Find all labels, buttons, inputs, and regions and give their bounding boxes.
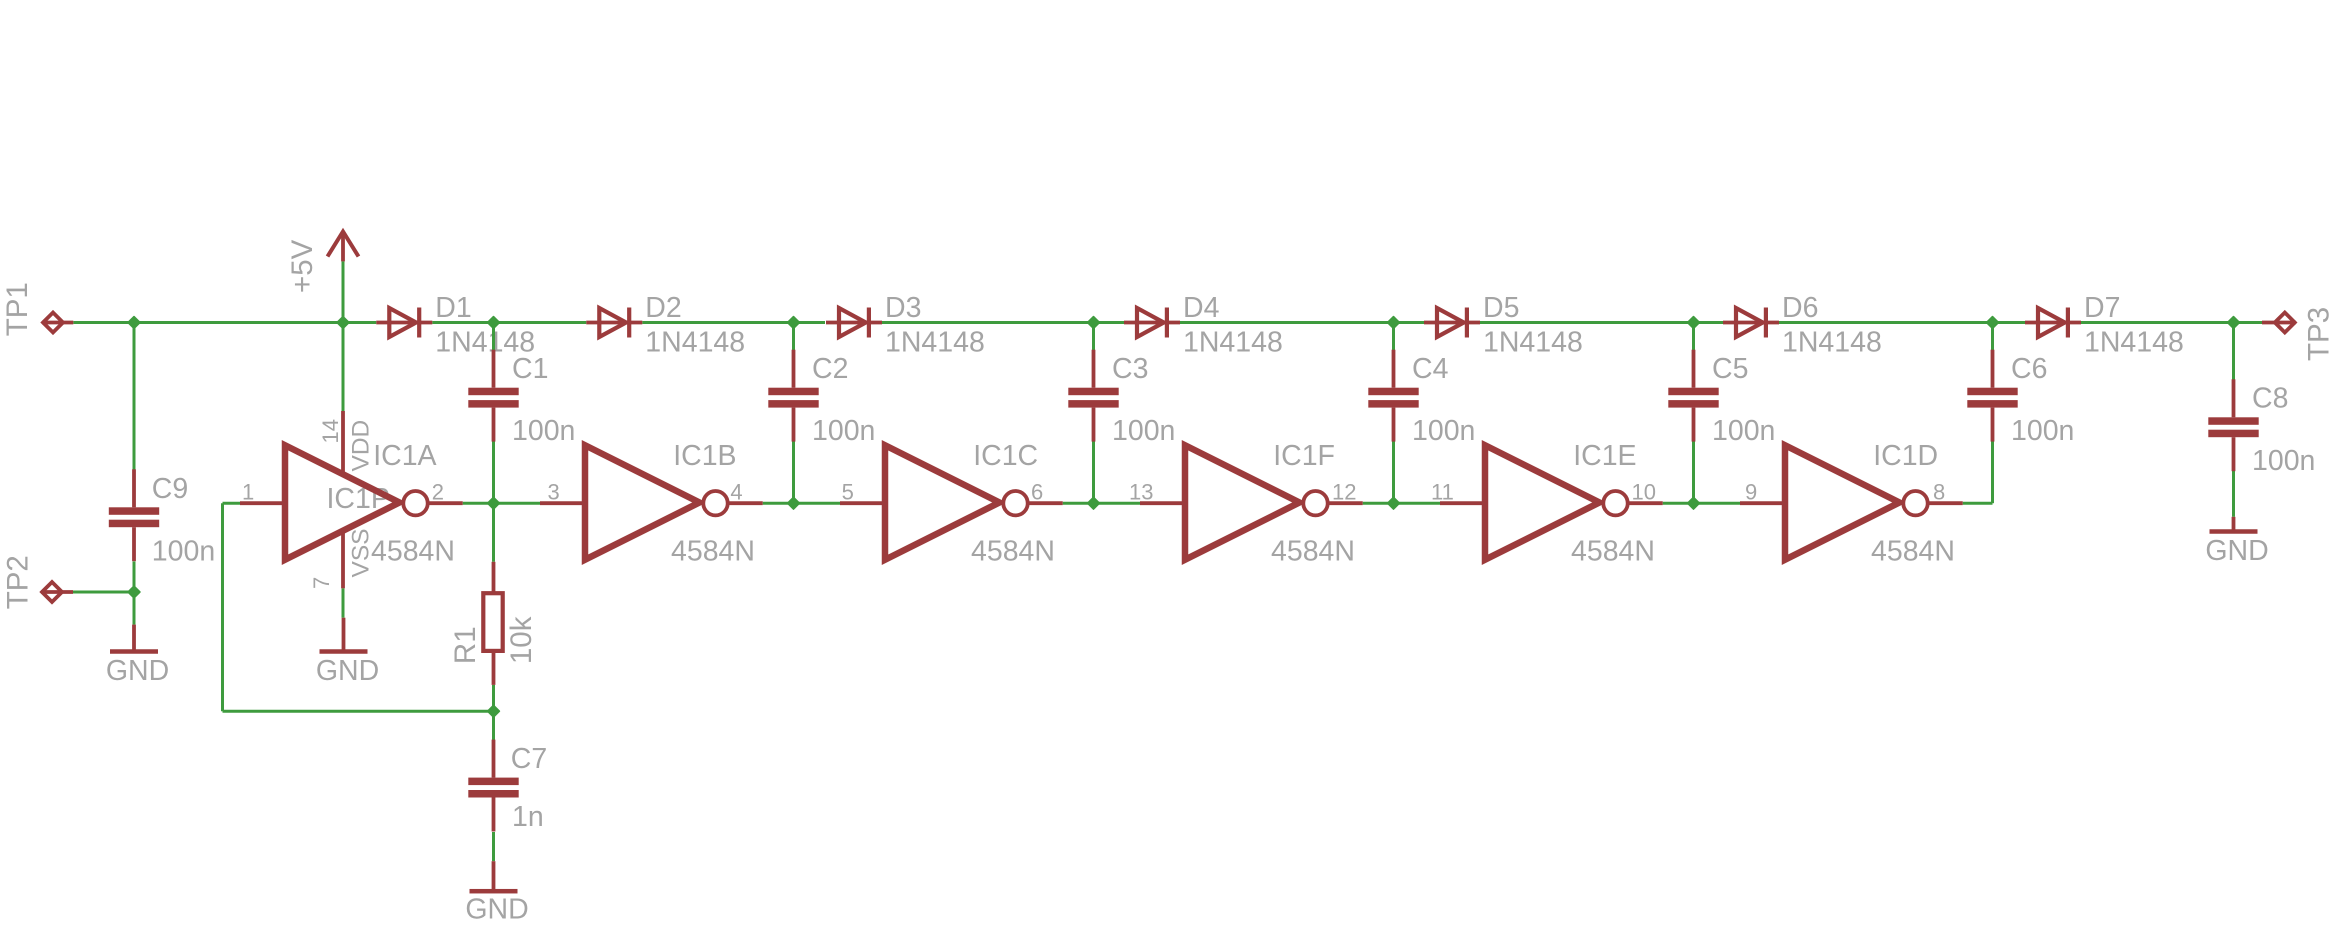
wire node to C8 bbox=[2232, 323, 2235, 382]
svg-text:TP3: TP3 bbox=[2303, 307, 2336, 361]
svg-text:100n: 100n bbox=[1712, 415, 1775, 447]
wire feedback horizontal bbox=[223, 710, 494, 713]
junction row node C3 bbox=[1088, 497, 1100, 509]
svg-text:C4: C4 bbox=[1412, 353, 1449, 385]
svg-text:IC1D: IC1D bbox=[1873, 440, 1938, 472]
junction node TP2/C9/GND bbox=[128, 586, 140, 598]
wire node to gate4 input bbox=[1094, 502, 1141, 505]
wire IC1A input segment bbox=[223, 502, 241, 505]
svg-text:+5V: +5V bbox=[286, 239, 319, 293]
svg-text:C8: C8 bbox=[2252, 383, 2288, 415]
ground symbol under C7 bbox=[470, 861, 518, 893]
svg-text:GND: GND bbox=[106, 655, 169, 687]
+5V supply symbol bbox=[328, 232, 359, 262]
wire top net segment 4 bbox=[881, 321, 1124, 324]
wire top net segment 8 bbox=[2081, 321, 2262, 324]
capacitor C3 100n bbox=[1068, 350, 1118, 442]
svg-text:1N4148: 1N4148 bbox=[1782, 327, 1882, 359]
capacitor C8 100n bbox=[2208, 379, 2258, 471]
junction node +5V/D1 bbox=[337, 317, 349, 329]
junction node C5 bbox=[1688, 317, 1700, 329]
svg-text:8: 8 bbox=[1933, 480, 1945, 505]
svg-text:100n: 100n bbox=[152, 535, 215, 567]
diode D1 1N4148 bbox=[376, 308, 432, 338]
pin 14 VDD lead bbox=[341, 411, 345, 472]
svg-text:4584N: 4584N bbox=[1271, 536, 1355, 568]
junction row node C5 bbox=[1688, 497, 1700, 509]
svg-text:100n: 100n bbox=[2011, 415, 2074, 447]
svg-text:3: 3 bbox=[548, 480, 560, 505]
svg-text:C2: C2 bbox=[812, 353, 848, 385]
test point TP1 bbox=[42, 313, 73, 333]
svg-text:TP1: TP1 bbox=[1, 282, 34, 336]
svg-text:C5: C5 bbox=[1712, 353, 1748, 385]
diode D6 1N4148 bbox=[1723, 308, 1779, 338]
svg-text:13: 13 bbox=[1129, 480, 1153, 505]
svg-text:D1: D1 bbox=[435, 292, 471, 324]
diode D3 1N4148 bbox=[826, 308, 882, 338]
junction node C4 bbox=[1388, 317, 1400, 329]
svg-text:1N4148: 1N4148 bbox=[1183, 327, 1283, 359]
wire net down to C6 bbox=[1991, 323, 1994, 351]
svg-text:1: 1 bbox=[242, 480, 254, 505]
wire gate4 output to node bbox=[1363, 502, 1394, 505]
wire C3 to row bbox=[1092, 441, 1095, 503]
wire net down to C5 bbox=[1692, 323, 1695, 351]
diode D2 1N4148 bbox=[586, 308, 642, 338]
wire VSS net segment bbox=[342, 588, 345, 617]
svg-text:VDD: VDD bbox=[348, 420, 375, 472]
capacitor C9 100n bbox=[109, 469, 159, 561]
wire net down to C1 bbox=[492, 323, 495, 351]
svg-text:4584N: 4584N bbox=[1871, 536, 1955, 568]
svg-text:D7: D7 bbox=[2084, 292, 2120, 324]
wire node to VDD pin bbox=[342, 323, 345, 412]
svg-text:IC1A: IC1A bbox=[373, 440, 436, 472]
svg-text:IC1E: IC1E bbox=[1573, 440, 1636, 472]
svg-text:1N4148: 1N4148 bbox=[1483, 327, 1583, 359]
ground symbol under C9 bbox=[110, 625, 158, 654]
wire top net segment 2 bbox=[432, 321, 586, 324]
wire gate5 output to node bbox=[1663, 502, 1694, 505]
ground symbol under IC1A VSS bbox=[320, 618, 368, 654]
wire gate1 output to node bbox=[463, 502, 494, 505]
svg-text:D6: D6 bbox=[1782, 292, 1818, 324]
svg-text:4584N: 4584N bbox=[971, 536, 1055, 568]
svg-text:GND: GND bbox=[465, 894, 528, 926]
pin 7 VSS lead bbox=[341, 532, 345, 589]
wire row node to R1 bbox=[492, 503, 495, 562]
inverter IC1D 4584N bbox=[1740, 445, 1963, 560]
svg-text:4584N: 4584N bbox=[371, 536, 455, 568]
wire C4 to row bbox=[1392, 441, 1395, 503]
svg-text:1N4148: 1N4148 bbox=[885, 327, 985, 359]
svg-text:C6: C6 bbox=[2011, 353, 2047, 385]
resistor R1 10k bbox=[483, 562, 502, 685]
wire node A down to C9 bbox=[133, 323, 136, 472]
svg-text:100n: 100n bbox=[1112, 415, 1175, 447]
svg-text:C9: C9 bbox=[152, 473, 188, 505]
junction node C2 bbox=[788, 317, 800, 329]
svg-text:R1: R1 bbox=[449, 626, 482, 664]
wire C5 to row bbox=[1692, 441, 1695, 503]
svg-text:GND: GND bbox=[316, 655, 379, 687]
svg-text:100n: 100n bbox=[812, 415, 875, 447]
svg-text:4: 4 bbox=[730, 480, 742, 505]
wire TP2 to node bbox=[73, 591, 134, 594]
wire C2 to row bbox=[792, 441, 795, 503]
wire top net segment 1 bbox=[73, 321, 376, 324]
svg-text:C1: C1 bbox=[512, 353, 548, 385]
capacitor C2 100n bbox=[768, 350, 818, 442]
junction row node C2 bbox=[788, 497, 800, 509]
svg-text:IC1B: IC1B bbox=[673, 440, 736, 472]
svg-text:6: 6 bbox=[1031, 480, 1043, 505]
junction row node C4 bbox=[1388, 497, 1400, 509]
svg-text:100n: 100n bbox=[2252, 445, 2315, 477]
wire net down to C3 bbox=[1092, 323, 1095, 351]
svg-text:IC1F: IC1F bbox=[1273, 440, 1335, 472]
svg-text:4584N: 4584N bbox=[671, 536, 755, 568]
svg-text:C7: C7 bbox=[511, 743, 547, 775]
svg-text:10k: 10k bbox=[505, 616, 538, 664]
wire top net segment 7 bbox=[1779, 321, 2025, 324]
test point TP3 bbox=[2262, 313, 2296, 333]
svg-text:VSS: VSS bbox=[348, 528, 375, 577]
wire R1 to feedback node bbox=[492, 685, 495, 711]
svg-text:D3: D3 bbox=[885, 292, 921, 324]
wire net down to C2 bbox=[792, 323, 795, 351]
junction node R1/C7/feedback bbox=[488, 705, 500, 717]
svg-text:C3: C3 bbox=[1112, 353, 1148, 385]
svg-text:GND: GND bbox=[2205, 535, 2268, 567]
capacitor C6 100n bbox=[1967, 350, 2017, 442]
svg-text:D4: D4 bbox=[1183, 292, 1220, 324]
junction node TP1/C9 bbox=[128, 317, 140, 329]
wire node to gate5 input bbox=[1394, 502, 1441, 505]
wire top net segment 6 bbox=[1480, 321, 1723, 324]
svg-text:12: 12 bbox=[1332, 480, 1356, 505]
svg-text:9: 9 bbox=[1745, 480, 1757, 505]
wire top net segment 5 bbox=[1180, 321, 1424, 324]
capacitor C1 100n bbox=[468, 350, 518, 442]
wire gate2 output to node bbox=[763, 502, 794, 505]
wire node to gate6 input bbox=[1694, 502, 1741, 505]
wire feedback vertical bbox=[221, 503, 224, 711]
wire +5V to node bbox=[342, 261, 345, 322]
svg-text:7: 7 bbox=[309, 577, 334, 589]
svg-text:D5: D5 bbox=[1483, 292, 1519, 324]
wire top net segment 3 bbox=[642, 321, 825, 324]
capacitor C4 100n bbox=[1368, 350, 1418, 442]
svg-text:100n: 100n bbox=[512, 415, 575, 447]
wire net down to C4 bbox=[1392, 323, 1395, 351]
junction node C1 bbox=[488, 317, 500, 329]
wire node to gate2 input bbox=[494, 502, 541, 505]
svg-text:D2: D2 bbox=[645, 292, 681, 324]
diode D7 1N4148 bbox=[2025, 308, 2081, 338]
inverter IC1C 4584N bbox=[840, 445, 1063, 560]
svg-text:1n: 1n bbox=[512, 801, 544, 833]
diode D5 1N4148 bbox=[1424, 308, 1480, 338]
svg-text:4584N: 4584N bbox=[1571, 536, 1655, 568]
wire feedback node to C7 bbox=[492, 711, 495, 743]
wire C6 to row bbox=[1991, 441, 1994, 503]
svg-text:1N4148: 1N4148 bbox=[2084, 327, 2184, 359]
wire IC1D output to C6 column bbox=[1963, 502, 1993, 505]
svg-text:11: 11 bbox=[1431, 480, 1454, 505]
junction row node C1 bbox=[488, 497, 500, 509]
wire C7 to GND bbox=[492, 832, 495, 861]
wire C8 to GND bbox=[2232, 471, 2235, 517]
capacitor C5 100n bbox=[1668, 350, 1718, 442]
test point TP2 bbox=[41, 582, 73, 602]
wire C1 to row bbox=[492, 441, 495, 503]
wire node to gate3 input bbox=[794, 502, 841, 505]
svg-text:TP2: TP2 bbox=[1, 555, 34, 609]
capacitor C7 1n bbox=[468, 740, 518, 832]
ground symbol under C8 bbox=[2210, 517, 2258, 534]
junction node C6 bbox=[1987, 317, 1999, 329]
svg-text:2: 2 bbox=[432, 480, 444, 505]
svg-text:5: 5 bbox=[842, 480, 854, 505]
svg-text:IC1C: IC1C bbox=[973, 440, 1038, 472]
junction node C8/TP3 bbox=[2228, 317, 2240, 329]
junction node C3 bbox=[1088, 317, 1100, 329]
inverter IC1B 4584N bbox=[540, 445, 763, 560]
wire C9 to TP2 node bbox=[133, 561, 136, 624]
svg-text:10: 10 bbox=[1632, 480, 1656, 505]
svg-text:14: 14 bbox=[318, 419, 343, 443]
svg-text:1N4148: 1N4148 bbox=[645, 327, 745, 359]
svg-text:100n: 100n bbox=[1412, 415, 1475, 447]
inverter IC1E 4584N bbox=[1440, 445, 1663, 560]
inverter IC1A 4584N bbox=[240, 445, 463, 560]
wire gate3 output to node bbox=[1063, 502, 1094, 505]
inverter IC1F 4584N bbox=[1140, 445, 1363, 560]
diode D4 1N4148 bbox=[1124, 308, 1180, 338]
